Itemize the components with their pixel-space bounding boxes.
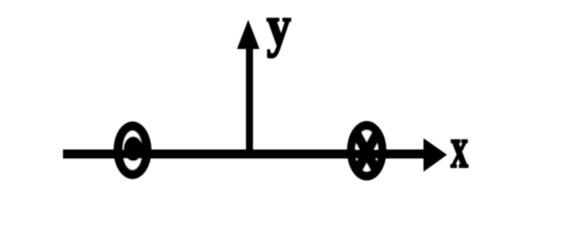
x-axis arrowhead	[424, 138, 448, 172]
field-into-page symbol: inner white of ring	[355, 130, 378, 172]
svg-text:x: x	[451, 116, 468, 180]
x-axis line	[63, 150, 426, 159]
svg-text:y: y	[267, 0, 292, 58]
field-into-page symbol: X stroke 2	[357, 134, 377, 171]
field-out-of-page symbol: inner white of ring	[123, 131, 143, 170]
field-out-of-page symbol: center dot	[124, 136, 143, 161]
field-out-of-page symbol B-out: outer ring (left circle)	[114, 122, 152, 180]
y-axis arrowhead	[237, 20, 260, 49]
field-into-page symbol B-in: outer ring (right circle)	[347, 121, 387, 181]
field-into-page symbol: X stroke 1	[357, 134, 377, 171]
y-axis line	[246, 45, 253, 158]
